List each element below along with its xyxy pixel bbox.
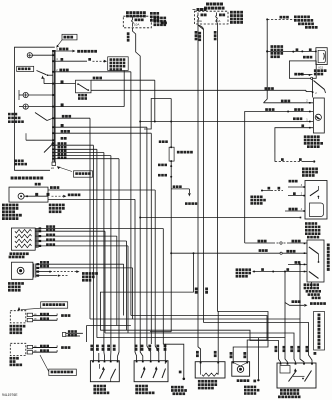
wire fuse20 down [132, 28, 142, 361]
labels connector 1 [40, 313, 43, 316]
label wire black-blue vertical [127, 32, 130, 35]
wire thermal box top output to H2 corner [91, 79, 155, 81]
label black [309, 48, 312, 51]
labels above motor pins [230, 352, 233, 355]
fan motor pins [232, 362, 234, 364]
text vertical right of tall box [327, 244, 330, 247]
leader arrow to bus top [57, 40, 62, 47]
bus connector line [52, 50, 54, 162]
label green-yellow top [303, 56, 306, 59]
box A pins [92, 361, 94, 363]
wire 133 right corner down x151 [55, 132, 152, 134]
thermal protector contact [78, 84, 88, 90]
text box A label [93, 385, 96, 388]
text ETACS block right [294, 16, 297, 19]
wire H2 black-red long to compressor [140, 121, 313, 123]
text box B label [135, 385, 138, 388]
text to engine room [310, 302, 313, 305]
labels motor wires [40, 261, 43, 264]
wire stub relay A pin2 [98, 353, 100, 361]
fan selector switch arm [44, 143, 54, 153]
svg-text:40A: 40A [197, 19, 202, 23]
wire long horizontal 216 [140, 217, 300, 219]
text to illumination system [77, 50, 80, 53]
label blue on dashed [299, 158, 302, 161]
wire motor2 right pin terminal [257, 338, 259, 380]
wire H1 left segment [55, 83, 76, 85]
text fuse42C power line box [108, 57, 129, 71]
wire H1 right segment into pressure switch [91, 89, 306, 91]
label blue near terminal [179, 371, 182, 374]
wire weave 315 from pin2 to fan motor2 [131, 316, 267, 362]
text fuse42C note mid [49, 204, 52, 207]
labels above box A pins [90, 345, 93, 348]
relay box C outline [277, 363, 316, 388]
text AC relay label [177, 151, 180, 154]
wire branch arrow down [171, 188, 189, 190]
text right of sensor [68, 194, 71, 197]
text battery-power note above fusebox [206, 3, 209, 6]
wire dashed to ETACS [267, 18, 296, 20]
leader line to label [40, 355, 49, 372]
AC thermo fuse box on 171 [169, 147, 174, 161]
lamp 2 [23, 92, 28, 97]
label black-white vertical 2 [214, 31, 217, 34]
lamp illumination top [27, 53, 32, 58]
switch inside relay [310, 190, 319, 196]
relay box B outline [134, 361, 168, 382]
wire sensor dashed arrow [52, 195, 64, 197]
label black-blue pin2 [59, 69, 62, 72]
fan motor box [232, 362, 250, 377]
fan motor circle [237, 366, 243, 372]
wires connector 2 [33, 347, 58, 349]
text AC switch label below tall box [304, 283, 307, 286]
blower motor circle [17, 267, 24, 274]
label box instrument panel pointer [62, 34, 77, 40]
wire AC switch to bus [48, 74, 53, 76]
text blower motor label below [8, 282, 11, 285]
evaporator sensor box [9, 187, 48, 202]
text heater-AC controller below [11, 177, 14, 180]
text fuse42C right of motor [82, 272, 85, 275]
labels blue on fuse verticals [195, 288, 198, 291]
lamp 3 [23, 104, 28, 109]
label black-red thermal out [93, 77, 96, 80]
label black-red right [293, 117, 296, 120]
node junction top right [266, 18, 268, 20]
text fuse42C below terminal [171, 386, 174, 389]
wire fuse42 output down [197, 23, 199, 293]
fan switch symbols inside panel [35, 113, 47, 121]
labels above box B pins [135, 345, 138, 348]
box C switch arms [289, 371, 297, 382]
wire black-yellow compressor [245, 112, 314, 244]
wires connector 1 [33, 315, 58, 317]
connector plates 1 [27, 313, 32, 316]
label blue [301, 124, 304, 127]
label black on H1 [61, 80, 64, 83]
label black-blue [265, 108, 268, 111]
text idle right [61, 346, 64, 349]
internal hook wire with up arrow [43, 78, 45, 84]
label 133 [61, 130, 64, 133]
svg-text:2A: 2A [51, 167, 54, 170]
wire weave 333 to relay C3 [105, 333, 296, 364]
relay inner contact rect [310, 203, 324, 217]
fan speed wires group [55, 144, 94, 146]
arrow up from dashed box [18, 307, 21, 310]
text fan relay label below relay [305, 222, 308, 225]
wire vertical 100 corner from 292 [100, 253, 193, 330]
wire green 264 [288, 263, 307, 265]
blower motor box [12, 262, 33, 279]
label black 106 [61, 103, 64, 106]
label sensor wire1 mid [50, 186, 53, 189]
wires sensor group corners [48, 189, 155, 191]
text fan motor label [237, 379, 240, 382]
condenser fan relay box [305, 181, 327, 220]
wire blue short to compressor [275, 128, 314, 152]
wire pin1 to lamp monitor [55, 50, 72, 52]
labels resistor wires [46, 225, 49, 228]
heater relay box [289, 61, 316, 78]
resistor connector pins [39, 227, 42, 229]
dashed box MT connector 2 [10, 343, 25, 355]
fuse F51 10A [216, 13, 218, 23]
text compressor label [304, 135, 307, 138]
wire tall box bottom stub [311, 282, 313, 288]
wire pin2 right long corner down x128 [55, 71, 131, 73]
wire fuse51 output down [217, 23, 219, 312]
bus pin markers [52, 50, 54, 52]
text fuse42C below 258 [244, 386, 247, 389]
label sensor wire1 start [35, 183, 38, 186]
leader to heater unit label [57, 167, 72, 172]
box C inner rect [280, 366, 290, 374]
wire black-red 211 into relay [285, 210, 305, 212]
label black-yellow [294, 108, 297, 111]
fuse F42 40A [197, 13, 199, 23]
wire pin4 dashed to fuse link [55, 60, 87, 62]
leader arrow to dashed box [21, 308, 41, 310]
wire weave 330 to relay C1 [100, 330, 280, 364]
text thermal protector label [78, 94, 81, 97]
label box battery power bottom [49, 369, 77, 375]
labels above relay C pins [275, 346, 278, 349]
label black-white vertical [195, 31, 198, 34]
label 140 [61, 137, 64, 140]
photo sensor circle [18, 193, 24, 199]
text fuse42C note left [250, 196, 253, 199]
wire resistor pin2 up [217, 311, 219, 362]
wire 171 corner left [150, 331, 171, 333]
label black-blue 118 [62, 115, 65, 118]
label blue 258 [253, 380, 256, 383]
label blue [61, 58, 64, 61]
wire branch elbow to second run [198, 25, 204, 323]
blower resistor box [11, 228, 35, 250]
wire to ignition switch [267, 50, 316, 52]
wire green-yellow 187 [288, 186, 305, 188]
wire blue 190 dashed [262, 190, 271, 192]
wire long vertical right [264, 19, 268, 102]
fuse F20 dashed box [123, 16, 151, 28]
wire 217 end [300, 217, 302, 219]
wire blue 195 into relay [288, 195, 305, 197]
text blower switch note inside panel [8, 113, 11, 116]
text battery-power note above fuse20 [126, 11, 129, 14]
wire dots 271 into tall box [253, 271, 308, 273]
wire jog 151 from 171 [144, 99, 171, 130]
wire vertical 171 from H2 [170, 122, 172, 148]
text sensor block left [2, 204, 5, 207]
wire vertical 300 down [299, 264, 301, 319]
resistor wires out [35, 228, 163, 230]
wire dashed segment [93, 60, 105, 62]
label black 127 [61, 124, 64, 127]
wire weave 325 left stub [87, 325, 131, 327]
fusebox dashed box [195, 11, 229, 24]
box C pins [280, 363, 282, 365]
svg-text:10A: 10A [215, 19, 220, 23]
node open circle on box bottom [311, 77, 313, 79]
labels above resistor pins [196, 351, 199, 354]
labels fan wires [58, 142, 61, 145]
wire long horizontal 253 [171, 252, 307, 254]
wire weave 322 from fuse42 branch to relay C5 [204, 323, 313, 364]
motor connector pins [37, 263, 40, 265]
wire fuse42 to resistor pin [198, 292, 201, 362]
svg-text:94L1976E: 94L1976E [2, 393, 18, 397]
wire blue-white 243 dashed [245, 242, 273, 244]
switch arms in tall box [309, 247, 319, 254]
wire weave 319 to relay C4 [90, 319, 304, 364]
text note below connector 2 [10, 357, 13, 360]
wire pin black 106 up into fuse42C note [55, 106, 124, 108]
label black-yellow [280, 16, 283, 19]
text above blower motor [9, 256, 12, 259]
text fan switch note inside panel bottom [15, 160, 18, 163]
box A switch arms [100, 369, 105, 379]
mid connector pair [63, 332, 66, 336]
text MT note below [10, 325, 13, 328]
label box battery source [41, 302, 68, 308]
text fuse42C block right 168 [302, 168, 305, 171]
connector 2A below bus [52, 162, 56, 165]
wire green-yellow into pressure switch [300, 74, 312, 76]
switch arm pressure switch [314, 81, 325, 90]
label black-white [159, 140, 162, 143]
ignition switch IG2 box [316, 48, 327, 65]
fan resistor box [195, 362, 225, 378]
vertical text box right bottom [314, 312, 325, 351]
text location right of fuse20 [154, 17, 157, 20]
wire pin 118 right corner down x90 to weave319 [55, 117, 90, 119]
resistor pins [200, 362, 202, 364]
dashed box MT connector 1 [10, 311, 25, 323]
label blue [296, 48, 299, 51]
relay box A outline [90, 361, 119, 382]
text fan motor right [61, 314, 64, 317]
resistor zigzags [15, 229, 32, 233]
label green-black [281, 100, 284, 103]
text box C label [280, 389, 283, 392]
text fan resistor label [198, 380, 201, 383]
label black-blue [59, 48, 62, 51]
text dedicated fuse note left [150, 12, 153, 15]
wire 253 labels [259, 249, 262, 252]
wire 127 right corner down x146 [55, 126, 147, 128]
label green-yellow 187 [289, 180, 292, 183]
AC fan switch tall box [307, 240, 324, 282]
text engine-compartment relay box location right [230, 11, 233, 14]
box B pins [136, 361, 138, 363]
text blower resistor label below [10, 252, 13, 255]
thermal protector box on H1 [76, 80, 92, 93]
verticals fan group down to relay A [92, 145, 94, 361]
fuse F20 10A symbol [132, 17, 134, 27]
wire pressure switch vertical [311, 78, 313, 97]
svg-text:IG2: IG2 [319, 65, 324, 69]
label black-yellow branch [173, 185, 176, 188]
wire green-black to compressor [264, 102, 314, 104]
labels black-yellow x2 [158, 164, 161, 167]
label dot left [281, 158, 284, 161]
label box to heater unit [74, 171, 93, 177]
connector plates 2 [27, 345, 32, 348]
wire 140 internal [26, 139, 53, 141]
labels connector 2 [40, 345, 43, 348]
AC switch arm [37, 71, 47, 75]
AC switch label box [17, 66, 34, 71]
compressor connector box [313, 98, 324, 133]
wire vertical 285 down [284, 272, 286, 338]
label green-yellow inside [294, 73, 297, 76]
text battery label [197, 8, 200, 11]
wire sensor out black [24, 195, 48, 197]
wire weave 311 from fuse51 to fan motor [218, 312, 269, 362]
label blue 2 [88, 58, 91, 61]
wire weave 337 long to relay C2 [97, 338, 288, 364]
heater control box outline [15, 47, 55, 170]
label black-blue engine branch [292, 300, 295, 303]
text small label above 216 [185, 202, 188, 205]
wire 171 continue [170, 161, 172, 332]
wire vertical 275 with dashed jog [274, 152, 276, 162]
motor wires out [36, 263, 124, 265]
label black-blue mid H1 [265, 87, 268, 90]
fan resistor zigzag [202, 373, 218, 376]
box B switch arms [141, 369, 145, 379]
text fuse42C mid 268 [236, 268, 239, 271]
compressor clutch coil circle [315, 114, 321, 120]
wire branch arrow to engine harness [285, 303, 304, 306]
text fusible link note [271, 45, 274, 48]
resistor connector bar [35, 229, 37, 249]
motor connector bar [33, 264, 35, 278]
svg-text:10A: 10A [134, 23, 139, 27]
wire B5 loop to ring terminal [163, 344, 165, 364]
